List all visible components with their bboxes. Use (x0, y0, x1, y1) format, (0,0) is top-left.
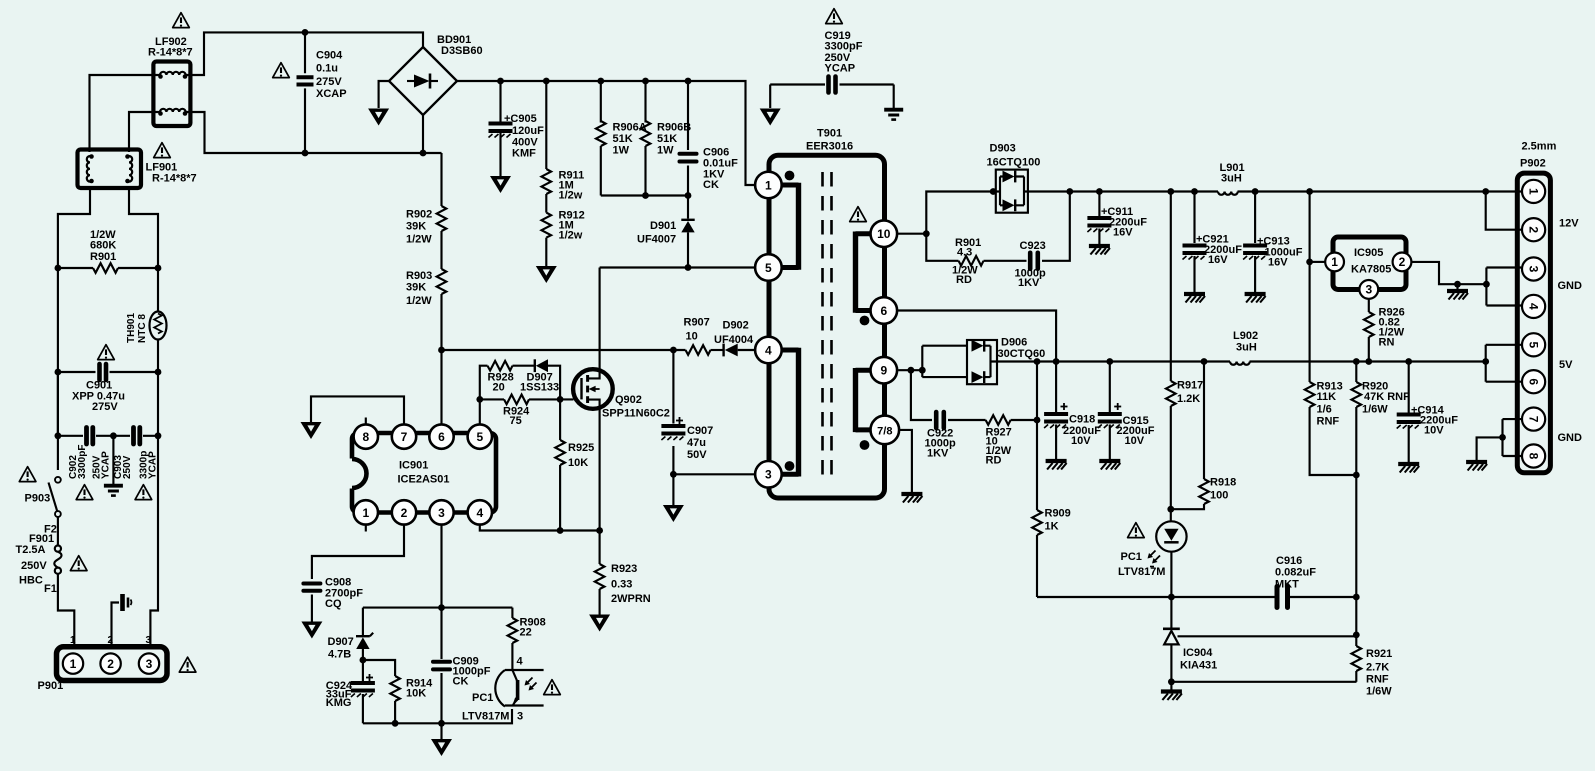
svg-text:16CTQ100: 16CTQ100 (987, 157, 1041, 169)
snubber C922 R927 (911, 370, 1037, 428)
svg-text:2: 2 (1399, 255, 1406, 269)
capacitor C915 electrolytic (1098, 358, 1122, 459)
svg-text:10K: 10K (568, 457, 588, 469)
svg-text:RN: RN (1379, 337, 1395, 349)
svg-text:3: 3 (1526, 266, 1540, 273)
node AC top C904 (302, 29, 309, 36)
svg-text:2: 2 (401, 506, 408, 520)
resistor R909 (1032, 358, 1042, 597)
svg-text:1: 1 (1526, 188, 1540, 195)
resistor R917 top connection (1166, 188, 1176, 509)
wire LF902 top right to AC top line (185, 32, 423, 75)
node C907 bottom (670, 471, 677, 478)
ground hatched C913 (1245, 294, 1266, 303)
svg-text:8: 8 (362, 430, 369, 444)
svg-text:R-14*8*7: R-14*8*7 (152, 173, 197, 185)
svg-text:10K: 10K (406, 688, 426, 700)
svg-text:P903: P903 (25, 493, 51, 505)
ground hatched IC905 (1447, 291, 1468, 300)
shunt regulator IC904 KIA431 (1163, 597, 1357, 682)
resistor R928 (488, 361, 513, 371)
svg-text:30CTQ60: 30CTQ60 (998, 348, 1046, 360)
warning triangle above LF902 (173, 13, 190, 28)
warning triangle C904 (273, 63, 290, 78)
svg-text:1KV: 1KV (1018, 277, 1040, 289)
resistor R903 (437, 269, 447, 425)
capacitor C908 (303, 584, 320, 622)
wire pin 9 to D906 (898, 346, 967, 377)
capacitor C914 electrolytic (1397, 358, 1421, 462)
svg-text:R917: R917 (1177, 380, 1203, 392)
snubber loop R901 C923 (926, 188, 1073, 265)
svg-text:MKT: MKT (1275, 579, 1299, 591)
ground arrow C905 (490, 176, 511, 193)
dual diode D903 (996, 170, 1028, 213)
pin 3 P902 (1522, 257, 1545, 280)
wire 5V rail (997, 360, 1486, 362)
pin 3 T901 (755, 461, 782, 488)
resistor R914 (363, 660, 400, 727)
svg-text:RD: RD (956, 274, 972, 286)
svg-text:1: 1 (70, 657, 77, 671)
capacitor C907 electrolytic (661, 417, 685, 440)
svg-text:0.33: 0.33 (611, 579, 632, 591)
wire gnd to pins 3 4 (1483, 268, 1521, 306)
mosfet Q902 (573, 369, 613, 409)
svg-text:51K: 51K (613, 133, 633, 145)
svg-text:4: 4 (765, 343, 772, 357)
svg-text:3: 3 (146, 657, 153, 671)
svg-text:2.7K: 2.7K (1366, 662, 1389, 674)
pin 2 P902 (1522, 218, 1545, 241)
capacitor C904 (297, 32, 314, 153)
wire pin 10 to D903 (897, 192, 996, 238)
svg-text:1SS133: 1SS133 (520, 382, 559, 394)
pin 8 P902 (1522, 444, 1545, 467)
svg-text:6: 6 (438, 430, 445, 444)
node IC904 anode (1168, 678, 1175, 685)
svg-text:10V: 10V (1125, 435, 1145, 447)
node zener C924 (360, 657, 367, 664)
node bridge bottom (420, 150, 427, 157)
resistor R924 (476, 395, 573, 405)
ground earth mid C902 C903 (104, 436, 123, 496)
svg-text:D901: D901 (650, 220, 676, 232)
svg-text:C918: C918 (1069, 414, 1095, 426)
capacitor C916 (1277, 587, 1357, 608)
wire pin3 line (673, 473, 755, 475)
svg-text:1: 1 (362, 506, 369, 520)
transformer T901 core box (769, 155, 885, 498)
pin 2 IC905 (1393, 253, 1412, 272)
dual diode D906 (967, 340, 997, 384)
connector P902 body (1517, 173, 1550, 473)
svg-text:Q902: Q902 (615, 394, 642, 406)
wire sub top row (363, 607, 513, 609)
ground hatched C914 (1398, 464, 1419, 473)
svg-text:YCAP: YCAP (825, 63, 856, 75)
wire C907 branch (672, 350, 674, 474)
svg-text:R921: R921 (1366, 648, 1392, 660)
capacitor C909 (433, 662, 450, 727)
capacitor C913 electrolytic (1243, 188, 1267, 292)
capacitor C903 (110, 428, 161, 445)
warning triangle above LF901 (154, 143, 171, 158)
svg-text:ICE2AS01: ICE2AS01 (398, 474, 450, 486)
pin 4 IC901 (468, 500, 492, 524)
ground earth C919 right (884, 85, 903, 120)
svg-text:P901: P901 (38, 680, 64, 692)
svg-text:LTV817M: LTV817M (462, 711, 509, 723)
svg-text:KA7805: KA7805 (1351, 264, 1391, 276)
svg-text:CK: CK (453, 676, 469, 688)
ground hatched IC904 (1161, 682, 1182, 700)
svg-text:PC1: PC1 (1121, 551, 1142, 563)
wire 12V to pins 1 2 (1482, 188, 1521, 230)
svg-text:680K: 680K (90, 240, 116, 252)
pin 1 P902 (1522, 180, 1545, 203)
svg-text:D903: D903 (990, 143, 1016, 155)
wire IC905 input (1306, 188, 1325, 382)
wire IC905 output to ground and connector (1411, 262, 1486, 290)
svg-text:4: 4 (517, 656, 524, 668)
primary winding 4-3 (780, 348, 799, 477)
connector P901 (57, 647, 168, 681)
resistor R923 (595, 531, 605, 615)
svg-text:75: 75 (510, 415, 522, 427)
svg-text:10V: 10V (1071, 435, 1091, 447)
svg-text:1KV: 1KV (927, 448, 949, 460)
svg-text:R925: R925 (568, 442, 594, 454)
pin 3 IC905 (1359, 280, 1378, 299)
svg-text:YCAP: YCAP (101, 451, 112, 479)
svg-text:16V: 16V (1268, 257, 1288, 269)
ground arrow C907 (663, 474, 684, 522)
capacitor C924 electrolytic (351, 660, 375, 723)
svg-text:100: 100 (1210, 490, 1228, 502)
zener D907 4.7B (356, 608, 373, 660)
svg-text:7: 7 (1526, 416, 1540, 423)
svg-text:3uH: 3uH (1236, 342, 1257, 354)
svg-text:51K: 51K (657, 133, 677, 145)
capacitor C919 (770, 77, 894, 93)
svg-text:1/2w: 1/2w (559, 230, 583, 242)
svg-text:1: 1 (765, 178, 772, 192)
svg-text:GND: GND (1558, 280, 1583, 292)
wire LF902 bottom right to AC bottom line (185, 112, 442, 153)
resistor R908 (508, 608, 518, 670)
resistor R925 (555, 399, 565, 530)
resistor R926 (1364, 299, 1374, 365)
secondary winding 9-7/8 (856, 368, 875, 450)
transformer core dashes (823, 172, 832, 477)
svg-text:EER3016: EER3016 (806, 141, 853, 153)
svg-text:3: 3 (765, 468, 772, 482)
wire bridge AC bottom stub (422, 115, 424, 153)
svg-text:YCAP: YCAP (148, 451, 159, 479)
svg-text:0.082uF: 0.082uF (1275, 567, 1316, 579)
svg-text:UF4007: UF4007 (637, 234, 676, 246)
optocoupler PC1 phototransistor (495, 670, 543, 707)
resistor R902 (437, 153, 447, 269)
svg-text:L902: L902 (1233, 330, 1258, 342)
svg-text:3: 3 (438, 506, 445, 520)
svg-text:275V: 275V (92, 401, 118, 413)
svg-text:C904: C904 (316, 50, 343, 62)
pin 6 T901 (871, 297, 898, 324)
svg-text:KMG: KMG (326, 697, 352, 709)
wire pin2 to C908 (312, 525, 404, 579)
ground hatched pin 7/8 (901, 494, 922, 503)
warning triangle C919 (826, 9, 843, 24)
svg-text:D902: D902 (723, 320, 749, 332)
svg-text:KIA431: KIA431 (1180, 660, 1217, 672)
primary winding 1-5 (780, 171, 799, 270)
svg-text:47K RNF: 47K RNF (1364, 391, 1410, 403)
svg-text:275V: 275V (316, 76, 342, 88)
svg-text:R901: R901 (90, 251, 116, 263)
svg-text:HBC: HBC (19, 575, 43, 587)
wire pin 7/8 to ground (899, 430, 912, 494)
svg-text:+C905: +C905 (504, 113, 537, 125)
switch P903 (49, 477, 61, 517)
svg-text:P902: P902 (1520, 158, 1546, 170)
svg-text:5: 5 (765, 261, 772, 275)
warning triangle below C902 (76, 485, 93, 500)
svg-text:39K: 39K (406, 282, 426, 294)
ground arrow R923 (589, 615, 610, 632)
wire B+ rail to transformer pin1 (457, 81, 755, 185)
warning triangle C901 (98, 345, 115, 360)
wire Q902 source to bottom row (599, 407, 601, 531)
pin 10 T901 (871, 220, 898, 247)
pin 4 T901 (755, 337, 782, 364)
wire pin3 down (440, 525, 442, 659)
svg-text:10V: 10V (1424, 425, 1444, 437)
pin 6 IC901 (429, 424, 453, 448)
svg-text:RNF: RNF (1317, 416, 1340, 428)
wire IC904 anode to R921 (1171, 681, 1356, 683)
wire divider to reference (1353, 475, 1360, 638)
node sub top (438, 604, 445, 611)
resistor R901 680K (55, 263, 162, 273)
capacitor C921 electrolytic (1183, 188, 1207, 292)
svg-text:16V: 16V (1208, 254, 1228, 266)
wire 12V rail (1028, 190, 1486, 192)
svg-text:1/6W: 1/6W (1362, 404, 1388, 416)
svg-text:1/2w: 1/2w (559, 190, 583, 202)
svg-text:11K: 11K (1317, 391, 1337, 403)
svg-text:NTC 8: NTC 8 (137, 314, 148, 343)
node AC bottom C904 (302, 150, 309, 157)
wire 5V to pins 5 6 (1482, 345, 1521, 382)
svg-text:3uH: 3uH (1221, 173, 1242, 185)
svg-text:10: 10 (877, 227, 891, 241)
capacitor C906 (680, 78, 697, 196)
optocoupler PC1 LED (1148, 509, 1187, 597)
svg-text:39K: 39K (406, 221, 426, 233)
svg-text:4: 4 (476, 506, 483, 520)
capacitor C905 electrolytic (489, 78, 513, 176)
ground chassis P901 (123, 594, 132, 611)
node line A left (438, 347, 445, 354)
svg-text:RNF: RNF (1366, 674, 1389, 686)
inductor L901 (1218, 192, 1238, 195)
svg-text:XCAP: XCAP (316, 88, 347, 100)
svg-text:20: 20 (493, 382, 505, 394)
resistor R911 (542, 78, 552, 194)
pin 9 T901 (871, 357, 898, 384)
svg-text:R909: R909 (1045, 508, 1071, 520)
svg-text:2: 2 (107, 657, 114, 671)
diode D901 (681, 196, 694, 271)
wire R906 bottoms (601, 192, 692, 199)
wire LF901 right leg to rail (129, 186, 158, 313)
svg-text:1/6W: 1/6W (1366, 686, 1392, 698)
svg-text:C916: C916 (1276, 555, 1302, 567)
svg-text:250V: 250V (122, 455, 133, 479)
resistor R918 (1167, 358, 1208, 513)
resistor R906A (596, 78, 606, 196)
wire R928 to D907 (513, 365, 535, 367)
svg-text:1W: 1W (657, 145, 674, 157)
svg-text:6: 6 (1526, 378, 1540, 385)
wire C901 row rails (58, 372, 158, 436)
svg-text:R906B: R906B (657, 122, 691, 134)
svg-text:LTV817M: LTV817M (1118, 566, 1165, 578)
svg-text:R907: R907 (684, 317, 710, 329)
secondary winding 10-6 (856, 232, 875, 326)
resistor R921 (1352, 635, 1362, 682)
node PC1 cathode (1168, 594, 1175, 601)
wire bridge minus to ground (379, 81, 389, 108)
line filter LF901 (78, 150, 142, 189)
svg-text:3: 3 (1365, 283, 1372, 297)
warning triangle P903 (19, 467, 36, 482)
svg-text:9: 9 (880, 364, 887, 378)
svg-text:47u: 47u (687, 437, 706, 449)
svg-text:12V: 12V (1559, 218, 1579, 230)
pin 6 P902 (1522, 370, 1545, 393)
svg-text:R923: R923 (611, 563, 637, 575)
svg-text:KMF: KMF (512, 148, 536, 160)
svg-text:CQ: CQ (325, 598, 342, 610)
svg-text:T901: T901 (817, 128, 842, 140)
svg-text:2.5mm: 2.5mm (1522, 141, 1557, 153)
pin 2 IC901 (392, 500, 416, 524)
wire P901 pin2 chassis (112, 603, 120, 647)
svg-text:1/2W: 1/2W (406, 234, 432, 246)
node D903 input (990, 188, 997, 195)
ground arrow C908 (301, 622, 322, 639)
ground hatched P902 (1466, 462, 1487, 471)
resistor R912 (542, 194, 552, 266)
svg-text:5: 5 (1526, 341, 1540, 348)
wire pin4 bottom row (480, 525, 603, 534)
inductor L902 (1230, 362, 1250, 365)
wire LF902 bottom left to LF901 (129, 112, 160, 152)
ground arrow sub (431, 723, 452, 756)
resistor R907 (670, 345, 723, 355)
wire sub bottom row (363, 709, 512, 723)
wire reference line (1037, 596, 1275, 598)
svg-text:UF4004: UF4004 (714, 334, 754, 346)
pin 5 T901 (755, 254, 782, 281)
svg-text:16V: 16V (1113, 227, 1133, 239)
pin 1 T901 (755, 172, 782, 199)
ground hatched C911 (1089, 246, 1110, 255)
svg-text:IC905: IC905 (1354, 247, 1383, 259)
svg-text:7: 7 (401, 430, 408, 444)
svg-text:2WPRN: 2WPRN (611, 593, 651, 605)
svg-text:120uF: 120uF (512, 125, 544, 137)
svg-text:7/8: 7/8 (877, 425, 892, 437)
pin 7 P902 (1522, 408, 1545, 431)
pin 7/8 T901 (871, 416, 900, 445)
svg-text:IC904: IC904 (1183, 647, 1213, 659)
wire gnd to pins 7 8 (1477, 419, 1521, 460)
svg-text:D907: D907 (328, 636, 354, 648)
pin 8 IC901 (354, 418, 378, 449)
svg-text:1W: 1W (613, 145, 630, 157)
wire right rail to P901 pin3 (150, 436, 158, 647)
wire pin5 to snubber row (480, 366, 488, 425)
svg-text:8: 8 (1526, 453, 1540, 460)
svg-text:250V: 250V (21, 560, 47, 572)
resistor R906B (641, 78, 651, 196)
resistor R913 (1305, 382, 1360, 478)
pin 1 IC905 (1325, 253, 1344, 272)
svg-text:4.7B: 4.7B (328, 649, 351, 661)
svg-text:TH901: TH901 (126, 313, 137, 343)
svg-text:CK: CK (703, 179, 719, 191)
svg-text:50V: 50V (687, 449, 707, 461)
ground hatched C921 (1184, 294, 1205, 303)
wire pin 6 to 5V rail (897, 311, 1059, 365)
pin 7 IC901 (392, 424, 416, 448)
pin 5 IC901 (468, 424, 492, 448)
pin 3 IC901 (429, 500, 453, 524)
warning triangle PC1 (544, 680, 561, 695)
svg-text:3: 3 (517, 711, 523, 723)
svg-text:R902: R902 (406, 209, 432, 221)
wire LF902 top left to LF901 (90, 75, 161, 152)
svg-text:4: 4 (1526, 303, 1540, 310)
svg-text:C907: C907 (687, 425, 713, 437)
svg-text:F1: F1 (44, 583, 57, 595)
thermistor TH901 (150, 312, 167, 374)
capacitor C911 electrolytic (1087, 188, 1111, 244)
svg-text:C923: C923 (1020, 240, 1046, 252)
svg-text:10: 10 (686, 331, 698, 343)
svg-text:1/6: 1/6 (1317, 404, 1332, 416)
resistor R920 (1352, 358, 1362, 475)
ground arrow C919 left (760, 85, 781, 126)
fuse F901 (54, 517, 74, 647)
svg-text:RD: RD (986, 455, 1002, 467)
bridge rectifier BD901 (389, 47, 457, 115)
ground arrow R912 (536, 266, 557, 283)
wire LF901 left leg to rail (58, 186, 90, 470)
diode D902 (724, 344, 755, 357)
svg-text:5V: 5V (1559, 359, 1573, 371)
svg-text:R-14*8*7: R-14*8*7 (148, 47, 193, 59)
svg-text:PC1: PC1 (472, 692, 493, 704)
wire pin7 to ground (311, 396, 404, 424)
svg-text:R903: R903 (406, 270, 432, 282)
warning triangle fuse (70, 556, 87, 571)
capacitor C918 electrolytic (1044, 362, 1068, 460)
